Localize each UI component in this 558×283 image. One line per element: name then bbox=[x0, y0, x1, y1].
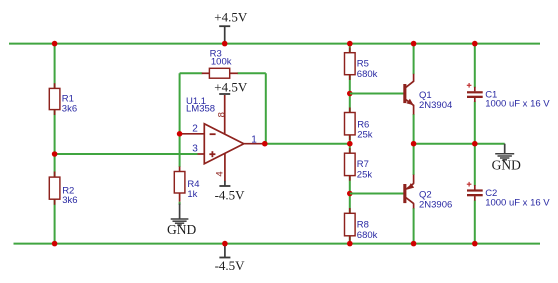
wire middle row to op-amp pin3 bbox=[55, 153, 198, 155]
wire emitters node to C node bbox=[414, 143, 505, 145]
node R5-R6 / Q1 base bbox=[347, 91, 353, 97]
svg-text:+4.5V: +4.5V bbox=[214, 79, 248, 94]
op-amp plus input mark bbox=[209, 153, 215, 155]
capacitor C1 bbox=[467, 83, 550, 110]
svg-text:R7: R7 bbox=[357, 159, 369, 170]
node bottom rail / R2 bbox=[52, 241, 58, 247]
wire feedback left vertical (R3 to pin2 to R4) bbox=[179, 73, 181, 167]
resistor R5 bbox=[345, 48, 378, 81]
svg-text:1000 uF x 16 V: 1000 uF x 16 V bbox=[485, 197, 550, 208]
wire Q1 collector up bbox=[413, 44, 415, 75]
pin 8 stub vertical bbox=[224, 95, 226, 134]
node bottom rail / C2 bbox=[472, 241, 478, 247]
svg-text:-4.5V: -4.5V bbox=[215, 258, 246, 273]
svg-text:GND: GND bbox=[167, 222, 196, 237]
node top rail / R5 bbox=[347, 41, 353, 47]
wire Q1 base bbox=[350, 93, 404, 95]
node top rail / R1 bbox=[52, 41, 58, 47]
node R7-R8 / Q2 base bbox=[347, 191, 353, 197]
wire left branch vertical (R1/R2) bbox=[54, 44, 56, 244]
svg-text:1000 uF x 16 V: 1000 uF x 16 V bbox=[485, 99, 550, 110]
pin 3 stub bbox=[198, 153, 205, 155]
wire output to R6/R7 node bbox=[265, 143, 350, 145]
wire bottom rail bbox=[14, 243, 541, 245]
pin 4 stub vertical bbox=[224, 153, 226, 181]
op-amp minus input mark bbox=[210, 133, 216, 135]
svg-text:1k: 1k bbox=[187, 189, 197, 200]
svg-text:R8: R8 bbox=[357, 219, 369, 230]
svg-text:25k: 25k bbox=[357, 170, 373, 181]
power -4.5V op-amp symbol bbox=[215, 181, 246, 203]
svg-text:25k: 25k bbox=[357, 129, 373, 140]
wire right branch vertical (R5..R8) bbox=[349, 44, 351, 244]
svg-text:3k6: 3k6 bbox=[62, 195, 77, 206]
node R6-R7 / op-amp output bbox=[347, 141, 353, 147]
power +4.5V top symbol bbox=[214, 9, 248, 43]
resistor R1 bbox=[49, 83, 77, 115]
node top rail / Q1 collector bbox=[411, 41, 417, 47]
svg-text:8: 8 bbox=[216, 112, 227, 117]
power -4.5V bottom symbol bbox=[215, 244, 246, 273]
ground symbol right bbox=[492, 144, 521, 173]
ground symbol below R4 bbox=[167, 202, 196, 237]
power +4.5V op-amp symbol bbox=[214, 79, 248, 94]
wire feedback right vertical (R3 to output) bbox=[265, 73, 267, 143]
wire R3 right horizontal bbox=[238, 72, 266, 74]
resistor R2 bbox=[49, 172, 77, 207]
node feedback / pin2 bbox=[177, 131, 183, 137]
svg-text:1: 1 bbox=[251, 134, 257, 145]
node top rail / +4.5V bbox=[222, 41, 228, 47]
svg-text:2: 2 bbox=[192, 124, 198, 135]
node R1-R2 junction bbox=[52, 151, 58, 157]
node bottom rail / Q2 collector bbox=[411, 241, 417, 247]
resistor R3 bbox=[202, 48, 238, 78]
wire Q2 base bbox=[350, 193, 404, 195]
capacitor C2 bbox=[467, 182, 550, 208]
wire Q2 collector down bbox=[413, 208, 415, 244]
svg-text:GND: GND bbox=[492, 157, 521, 172]
pin 1 output stub bbox=[244, 143, 265, 145]
transistor Q2 2N3906 bbox=[403, 175, 452, 211]
node op-amp output bbox=[262, 141, 268, 147]
wire emitters vertical bbox=[413, 114, 415, 175]
svg-text:LM358: LM358 bbox=[186, 103, 215, 114]
svg-text:2N3906: 2N3906 bbox=[419, 199, 452, 210]
resistor R8 bbox=[345, 208, 378, 241]
svg-text:680k: 680k bbox=[357, 230, 378, 241]
svg-text:680k: 680k bbox=[357, 69, 378, 80]
wire top rail bbox=[9, 43, 540, 45]
resistor R4 bbox=[174, 167, 199, 202]
svg-text:2N3904: 2N3904 bbox=[419, 100, 452, 111]
node bottom rail / R8 bbox=[347, 241, 353, 247]
svg-text:+4.5V: +4.5V bbox=[214, 9, 248, 24]
svg-text:4: 4 bbox=[214, 171, 225, 176]
resistor R7 bbox=[345, 148, 373, 181]
node emitters / output bbox=[411, 141, 417, 147]
wire R3 left horizontal bbox=[180, 72, 203, 74]
resistor R6 bbox=[345, 108, 373, 141]
node C1-C2 / output bbox=[472, 141, 478, 147]
transistor Q1 2N3904 bbox=[403, 74, 452, 115]
node bottom rail / -4.5V bbox=[222, 241, 228, 247]
node top rail / C1 bbox=[472, 41, 478, 47]
wire C branch vertical bottom bbox=[474, 200, 476, 243]
svg-text:100k: 100k bbox=[211, 57, 232, 68]
pin 2 stub bbox=[181, 133, 205, 135]
svg-text:3: 3 bbox=[192, 144, 198, 155]
svg-text:-4.5V: -4.5V bbox=[215, 188, 246, 203]
svg-text:3k6: 3k6 bbox=[62, 104, 77, 115]
svg-text:R5: R5 bbox=[357, 59, 369, 70]
wire C branch vertical top bbox=[474, 44, 476, 88]
wire C branch vertical middle bbox=[474, 102, 476, 186]
op-amp U1.1 LM358 bbox=[186, 96, 244, 164]
